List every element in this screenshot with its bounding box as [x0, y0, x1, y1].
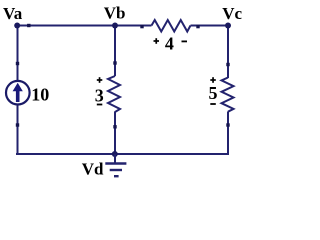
- polarity plus R2: [97, 77, 103, 83]
- ground symbol bar3: [114, 175, 119, 177]
- resistor R2 3ohm vertical: [108, 76, 120, 112]
- terminal square R3 top: [226, 63, 229, 66]
- wire left branch upper: [17, 25, 19, 82]
- wire top Va-Vb: [17, 25, 152, 27]
- terminal square R1 left: [140, 25, 143, 28]
- polarity minus R2: [97, 104, 103, 106]
- svg-text:3: 3: [95, 85, 104, 105]
- current source I1 arrow: [13, 83, 23, 102]
- wire bottom Vd rail: [16, 153, 229, 155]
- polarity minus R3: [210, 103, 216, 105]
- ground symbol bar1: [105, 162, 126, 164]
- terminal square I1 top: [16, 62, 19, 65]
- polarity plus R3: [210, 77, 216, 83]
- terminal square top wire: [27, 24, 30, 27]
- terminal square R1 right: [196, 25, 199, 28]
- resistor R3 5ohm vertical: [222, 78, 234, 112]
- current source I1 circle: [6, 81, 30, 105]
- wire middle branch upper: [114, 25, 116, 77]
- terminal square I1 bottom: [16, 123, 19, 126]
- junction dot node Vb: [112, 23, 118, 29]
- svg-text:Vb: Vb: [104, 3, 126, 22]
- wire right branch upper: [227, 25, 229, 79]
- wire middle branch lower: [114, 112, 116, 156]
- svg-text:10: 10: [31, 85, 49, 105]
- wire left branch lower: [17, 105, 19, 156]
- svg-text:Vc: Vc: [222, 4, 242, 23]
- junction dot node Vc: [225, 23, 231, 29]
- polarity plus R1: [154, 38, 160, 44]
- ground symbol bar2: [110, 169, 122, 171]
- terminal square R3 bottom: [226, 123, 229, 126]
- svg-text:Vd: Vd: [82, 160, 104, 179]
- terminal square R2 bottom: [113, 125, 116, 128]
- wire right branch lower: [227, 112, 229, 156]
- svg-text:5: 5: [209, 83, 218, 103]
- junction dot node Va: [14, 23, 20, 29]
- ground symbol stem: [114, 154, 116, 163]
- wire top resistor right lead to Vc: [191, 25, 229, 27]
- svg-text:Va: Va: [3, 4, 23, 23]
- terminal square R2 top: [113, 61, 116, 64]
- junction dot node Vd: [112, 151, 118, 157]
- svg-text:4: 4: [165, 33, 174, 53]
- resistor R1 4ohm horizontal: [152, 20, 191, 32]
- polarity minus R1: [182, 40, 188, 42]
